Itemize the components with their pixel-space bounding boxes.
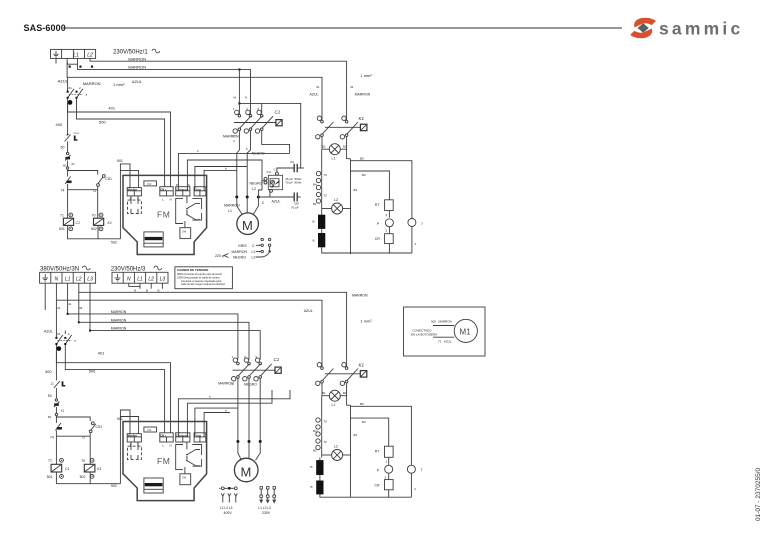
wire klixon to L2 <box>262 181 264 190</box>
svg-text:CA: CA <box>290 160 294 164</box>
svg-text:B1: B1 <box>313 449 317 453</box>
svg-text:B5: B5 <box>360 402 364 406</box>
wire AZUL line <box>67 58 322 120</box>
svg-text:F4: F4 <box>148 182 152 186</box>
switch thermal <box>61 132 81 152</box>
svg-text:L1: L1 <box>332 403 336 407</box>
terminal strip CN <box>160 433 173 442</box>
relay coil K1 <box>91 213 112 231</box>
P pressure circle <box>377 211 394 234</box>
svg-text:MARRON: MARRON <box>128 56 146 61</box>
contact 61 <box>65 152 75 167</box>
wire C1 pole2 to motor L2 <box>247 131 250 197</box>
svg-text:41: 41 <box>57 306 61 310</box>
lamp L1 <box>322 144 347 161</box>
wire 500 bottom <box>65 345 164 437</box>
svg-text:7: 7 <box>421 222 423 226</box>
lamp L1 bottom <box>322 390 347 407</box>
svg-text:B4: B4 <box>313 183 317 187</box>
switch 74 left with thermal pad <box>61 171 72 193</box>
svg-text:Aux: Aux <box>196 187 201 191</box>
contactor K1 link and coil box bottom <box>325 373 360 375</box>
wire 501 to monitor <box>120 164 130 239</box>
heater bar 1 <box>318 215 325 229</box>
svg-text:MARRON: MARRON <box>355 93 371 97</box>
svg-text:42: 42 <box>79 306 83 310</box>
P pressure circle bottom <box>377 457 393 479</box>
contactor C1 pole 3 bottom <box>254 355 272 381</box>
wire 401 bottom <box>56 345 170 437</box>
svg-text:N: N <box>127 277 131 283</box>
svg-text:C1: C1 <box>275 110 281 115</box>
svg-text:NEGRO: NEGRO <box>244 383 257 387</box>
connector pins 400V <box>219 487 237 515</box>
svg-text:N: N <box>170 198 172 202</box>
switch thermal bottom <box>48 381 66 399</box>
contactor C1 pole 2 bottom <box>243 355 261 381</box>
svg-text:74: 74 <box>50 435 54 439</box>
svg-text:71: 71 <box>60 214 64 218</box>
svg-text:400: 400 <box>45 369 52 374</box>
lamp L2 bottom <box>322 445 351 461</box>
jumper link terminal block <box>67 62 77 64</box>
svg-text:73: 73 <box>324 173 328 177</box>
wire relay common 502 bottom <box>56 472 120 484</box>
svg-text:CR: CR <box>375 237 381 241</box>
svg-text:L2: L2 <box>252 187 256 191</box>
svg-text:F4: F4 <box>148 428 152 432</box>
contact block right <box>176 198 183 223</box>
contactor C1 coil box bottom <box>233 357 282 373</box>
svg-text:50: 50 <box>61 146 65 150</box>
wire MARRON phase 2 <box>79 292 249 359</box>
sammic logo S swirl <box>630 18 656 38</box>
switch CS1 right branch <box>92 175 112 193</box>
svg-text:AZUL: AZUL <box>310 93 319 97</box>
svg-text:500: 500 <box>99 120 106 125</box>
svg-text:MARRON: MARRON <box>223 135 239 139</box>
svg-text:500 MARRON: 500 MARRON <box>431 320 452 324</box>
wire right rail to caps <box>239 103 300 168</box>
junction squares <box>67 313 69 315</box>
svg-text:K1: K1 <box>359 116 365 121</box>
heater bar 2 bottom <box>316 481 323 495</box>
svg-text:7: 7 <box>421 468 423 472</box>
wire AZUL N to K1 <box>56 283 322 367</box>
svg-text:K1: K1 <box>97 467 101 471</box>
svg-text:MARRON: MARRON <box>111 327 127 331</box>
svg-text:L2: L2 <box>334 445 338 449</box>
FM feed wires from right <box>178 153 289 190</box>
svg-text:74: 74 <box>61 189 65 193</box>
CR box <box>375 234 393 253</box>
svg-text:50: 50 <box>48 394 52 398</box>
svg-text:L2: L2 <box>76 277 82 283</box>
svg-text:Conectar el puente preparado p: Conectar el puente preparado para <box>181 279 222 283</box>
switch S1 main bottom <box>55 300 76 351</box>
svg-text:M: M <box>241 465 252 480</box>
wire right branch lower <box>351 171 390 200</box>
svg-text:400V: 400V <box>224 511 233 515</box>
svg-text:Aux: Aux <box>196 433 201 437</box>
terminal block X1 (230V single phase) <box>51 49 96 58</box>
svg-text:400: 400 <box>56 122 63 127</box>
svg-text:MARRON: MARRON <box>83 81 101 86</box>
svg-text:GRIS: GRIS <box>238 244 247 248</box>
svg-text:P.A.: P.A. <box>267 170 272 174</box>
svg-text:60: 60 <box>63 164 67 168</box>
transformer box <box>144 478 163 493</box>
svg-text:MARRON: MARRON <box>111 310 127 314</box>
svg-text:B1: B1 <box>313 202 317 206</box>
join bar 74 bottom <box>56 435 90 437</box>
M1 motor circle <box>454 319 477 342</box>
svg-text:L2: L2 <box>87 52 93 58</box>
svg-text:B4: B4 <box>354 433 358 437</box>
svg-text:M1: M1 <box>460 328 472 337</box>
wires to relay coils <box>67 190 69 219</box>
svg-text:FM: FM <box>157 210 170 220</box>
terminal block X3 230V <box>112 272 168 283</box>
svg-text:Masa: Masa <box>74 132 81 135</box>
lamp L2 <box>322 198 351 214</box>
wire right branch upper <box>351 161 412 219</box>
svg-text:C1: C1 <box>76 221 81 225</box>
wire 500 <box>77 99 165 191</box>
svg-text:501: 501 <box>117 159 123 163</box>
contactor K1 pole 1 <box>316 116 334 139</box>
wire 400 rail <box>67 103 69 134</box>
svg-text:501: 501 <box>59 227 65 231</box>
svg-text:401: 401 <box>108 106 115 111</box>
svg-text:L1: L1 <box>252 250 256 254</box>
svg-text:L1: L1 <box>137 277 143 283</box>
svg-text:60Hz: 60Hz <box>295 181 303 185</box>
wire K1 pole1 down bottom <box>322 383 329 396</box>
svg-text:B: B <box>311 465 313 469</box>
relay coil K1 bottom <box>80 458 102 478</box>
M1 info box <box>404 307 486 356</box>
svg-text:220 µ: 220 µ <box>215 254 224 258</box>
svg-text:L2: L2 <box>252 256 256 260</box>
svg-text:41: 41 <box>316 85 320 89</box>
svg-text:L1: L1 <box>73 52 79 58</box>
svg-text:230V: 230V <box>262 511 271 515</box>
contactor C1 pole 1 bottom <box>232 355 250 386</box>
wire right branch upper bottom <box>351 406 412 465</box>
wire C1 pole3 NEGRO loop <box>262 131 290 154</box>
heater bar 2 <box>318 233 325 247</box>
svg-text:EN LA BOTONERA: EN LA BOTONERA <box>411 333 437 337</box>
svg-text:NEGRO: NEGRO <box>233 256 246 260</box>
wire MARRON phase 1 <box>68 283 238 359</box>
switch S1 main <box>67 77 88 105</box>
svg-text:CR: CR <box>375 484 381 488</box>
svg-text:AZUL: AZUL <box>44 330 53 334</box>
contact 60 bottom <box>48 413 58 419</box>
svg-text:73: 73 <box>324 420 328 424</box>
FM speed controller block outline <box>123 422 207 501</box>
aux box 5W <box>184 221 186 228</box>
dashed relay block left <box>127 446 141 459</box>
svg-text:5W: 5W <box>182 230 186 234</box>
svg-text:N: N <box>245 96 247 100</box>
svg-text:70: 70 <box>92 214 96 218</box>
svg-text:501: 501 <box>117 417 123 421</box>
svg-text:CN +: CN + <box>160 433 166 437</box>
svg-text:B4: B4 <box>313 429 317 433</box>
bottom wire bottom diagram <box>320 494 412 497</box>
svg-text:380V:Conectar el puente polo a: 380V:Conectar el puente polo al neutro <box>177 272 223 276</box>
switch CS1 bottom <box>81 422 102 440</box>
svg-text:01-07 - 2370255/0: 01-07 - 2370255/0 <box>755 467 762 521</box>
wire MARRON L2 top line <box>90 58 347 120</box>
svg-text:AZUL: AZUL <box>304 309 313 313</box>
svg-text:C1: C1 <box>65 467 70 471</box>
svg-text:61: 61 <box>61 409 65 413</box>
motor M three phase <box>234 442 260 482</box>
ground stub X2 <box>44 283 46 310</box>
svg-text:B5: B5 <box>360 157 364 161</box>
svg-text:Contactor: Contactor <box>176 433 188 437</box>
wire cap branch to C junction <box>258 190 262 197</box>
svg-text:sammic: sammic <box>659 19 743 39</box>
svg-text:401: 401 <box>98 351 105 356</box>
terminal block X2 380V <box>40 272 96 283</box>
contact block right <box>176 445 183 470</box>
svg-text:MARRON: MARRON <box>224 204 240 208</box>
svg-text:L2: L2 <box>148 277 154 283</box>
svg-text:Monitor: Monitor <box>128 187 138 191</box>
svg-text:N: N <box>55 277 59 283</box>
svg-text:CAMBIO DE TENSION: CAMBIO DE TENSION <box>177 268 208 272</box>
svg-text:B2: B2 <box>362 420 366 424</box>
motor M single phase <box>237 197 259 235</box>
svg-text:70 µF: 70 µF <box>291 205 299 209</box>
svg-text:71 AZUL: 71 AZUL <box>438 340 452 344</box>
svg-text:N: N <box>170 444 172 448</box>
capacitor CM 70uF <box>272 193 301 210</box>
M1 wires <box>433 325 454 327</box>
svg-text:L1 L2 L3: L1 L2 L3 <box>220 506 233 510</box>
svg-text:MARRON: MARRON <box>232 250 248 254</box>
svg-text:61: 61 <box>72 162 76 166</box>
svg-text:502: 502 <box>111 484 117 488</box>
branch split bar bottom <box>56 416 90 422</box>
wire 400 rail bottom <box>55 351 57 381</box>
svg-text:L1: L1 <box>228 209 232 213</box>
svg-text:61: 61 <box>69 86 73 90</box>
svg-text:42: 42 <box>350 85 354 89</box>
wire C1 pole1 to motor L1 <box>237 131 240 197</box>
contact 60 <box>63 164 69 170</box>
svg-text:B4: B4 <box>354 188 358 192</box>
wire lamp L1 right to pole2 <box>340 136 350 158</box>
wire right branch lower bottom <box>351 418 389 446</box>
svg-text:MARRON: MARRON <box>111 318 127 322</box>
terminal strip Aux <box>194 433 206 442</box>
svg-text:500: 500 <box>89 368 96 373</box>
svg-text:502: 502 <box>80 475 86 479</box>
contactor K1 pole 2 <box>340 116 358 139</box>
motor junction dots <box>235 196 238 199</box>
contactor K1 link and coil box <box>325 126 360 128</box>
svg-text:Contactor: Contactor <box>176 187 188 191</box>
jumper links under X3 <box>129 283 163 289</box>
terminal chain circles bottom <box>313 396 327 458</box>
terminal chain circles <box>313 149 327 211</box>
svg-text:L3: L3 <box>87 277 93 283</box>
connector pins 230V <box>258 487 275 516</box>
wire K1 pole1 down <box>322 136 329 149</box>
svg-text:380V/50Hz/3N: 380V/50Hz/3N <box>40 267 79 273</box>
svg-text:B: B <box>313 239 315 243</box>
svg-text:L2: L2 <box>334 198 338 202</box>
svg-text:CS1: CS1 <box>96 425 103 429</box>
branch split bar <box>68 169 98 175</box>
contact 61 bottom <box>54 399 65 414</box>
switch 74 left bottom <box>50 417 62 439</box>
svg-text:501: 501 <box>47 475 53 479</box>
svg-text:B1: B1 <box>322 391 326 395</box>
svg-text:L1: L1 <box>65 277 71 283</box>
svg-text:230V/50Hz/3: 230V/50Hz/3 <box>111 267 146 273</box>
svg-text:12: 12 <box>51 382 55 386</box>
contactor C1 pole 2 <box>244 107 262 133</box>
svg-text:41: 41 <box>68 302 72 306</box>
fuse F4 box <box>144 181 157 186</box>
right circle 7 <box>408 219 423 254</box>
svg-text:61: 61 <box>57 332 61 336</box>
dashed relay block left <box>127 200 141 213</box>
capacitor CA 25uF <box>277 160 304 185</box>
transformer box <box>144 232 163 247</box>
contactor C1 link and coil box <box>234 110 282 126</box>
relay coil C1 bottom <box>47 458 70 478</box>
connector pins below motor <box>215 238 271 259</box>
relay coil C1 <box>59 213 80 231</box>
terminal strip CN <box>160 187 173 196</box>
svg-text:502: 502 <box>111 241 117 245</box>
svg-text:60: 60 <box>48 415 52 419</box>
wires to relay coils bottom <box>55 436 57 464</box>
svg-text:230V/50Hz/1: 230V/50Hz/1 <box>113 50 148 56</box>
wire MARRON L1 second line <box>78 58 251 114</box>
terminal strip Monitor <box>127 188 141 196</box>
svg-text:502: 502 <box>91 227 97 231</box>
terminal strip Monitor <box>127 434 141 442</box>
svg-text:K1: K1 <box>359 363 365 368</box>
svg-text:NEGRO: NEGRO <box>250 182 263 186</box>
svg-text:230V:Desconectar el cable de n: 230V:Desconectar el cable de neutro. <box>177 275 221 279</box>
wire MARRON phase 3 <box>90 283 260 359</box>
contactor C1 pole 3 <box>255 107 273 133</box>
svg-text:CS1: CS1 <box>105 177 112 181</box>
svg-text:MARRON: MARRON <box>218 382 234 386</box>
svg-text:L3: L3 <box>160 277 166 283</box>
FM feed wires from right bottom <box>178 390 290 437</box>
note box CAMBIO DE TENSION <box>175 267 233 289</box>
svg-text:5W: 5W <box>182 476 186 480</box>
svg-text:B: B <box>311 485 313 489</box>
svg-text:72: 72 <box>324 194 328 198</box>
svg-text:salto tension segun esquema el: salto tension segun esquema electrico <box>181 282 226 286</box>
svg-text:FM: FM <box>157 456 170 466</box>
wire mid rail down <box>350 159 352 255</box>
CR box bottom <box>375 480 394 498</box>
svg-text:71: 71 <box>48 459 52 463</box>
ground stub <box>55 58 57 63</box>
svg-text:K1: K1 <box>108 221 112 225</box>
svg-text:B: B <box>313 220 315 224</box>
svg-text:SAS-6000: SAS-6000 <box>24 23 66 33</box>
svg-text:CN +: CN + <box>160 187 166 191</box>
svg-text:70 µF: 70 µF <box>285 181 293 185</box>
wire mid rail down bottom <box>350 405 352 497</box>
right circle 7 bottom <box>407 465 422 497</box>
contactor K1 pole 1 bottom <box>316 363 334 386</box>
svg-text:L1: L1 <box>332 157 336 161</box>
fuse F4 box <box>144 427 157 432</box>
header rule line <box>63 27 622 29</box>
contactor K1 pole 2 bottom <box>340 363 358 386</box>
terminal strip Contactor <box>176 433 190 442</box>
svg-text:B2: B2 <box>362 173 366 177</box>
RT box <box>375 200 393 217</box>
svg-text:M: M <box>242 218 253 233</box>
terminal strip Contactor <box>176 187 190 196</box>
wires C1 to motor bottom <box>238 379 260 442</box>
svg-text:MARRON: MARRON <box>128 65 146 70</box>
svg-text:L1 L2 L3: L1 L2 L3 <box>258 506 271 510</box>
svg-text:70: 70 <box>81 459 85 463</box>
terminal strip Aux <box>194 187 206 196</box>
wire relay common 502 <box>68 225 121 238</box>
FM speed controller block outline <box>123 175 207 254</box>
wire MARRON top to K1 <box>79 283 347 367</box>
svg-text:AZUL: AZUL <box>272 199 281 203</box>
join bar 74 <box>68 189 98 191</box>
svg-text:C1: C1 <box>274 357 280 362</box>
wire 401 <box>68 99 171 191</box>
svg-text:AZUL: AZUL <box>132 79 143 84</box>
bottom wire <box>322 247 412 253</box>
svg-text:AZUL: AZUL <box>58 78 69 83</box>
svg-text:B1: B1 <box>322 145 326 149</box>
svg-text:MARRON: MARRON <box>352 294 368 298</box>
RT box bottom <box>375 446 393 463</box>
wire lamp L1 right to pole2 bottom <box>340 383 350 405</box>
svg-text:Monitor: Monitor <box>128 433 138 437</box>
svg-text:72: 72 <box>324 440 328 444</box>
heater bar 1 bottom <box>316 460 323 475</box>
aux box 5W <box>184 467 186 474</box>
klixon protector <box>264 168 283 193</box>
wire 501 to monitor bottom <box>120 410 130 484</box>
contactor C1 pole 1 <box>233 107 251 138</box>
